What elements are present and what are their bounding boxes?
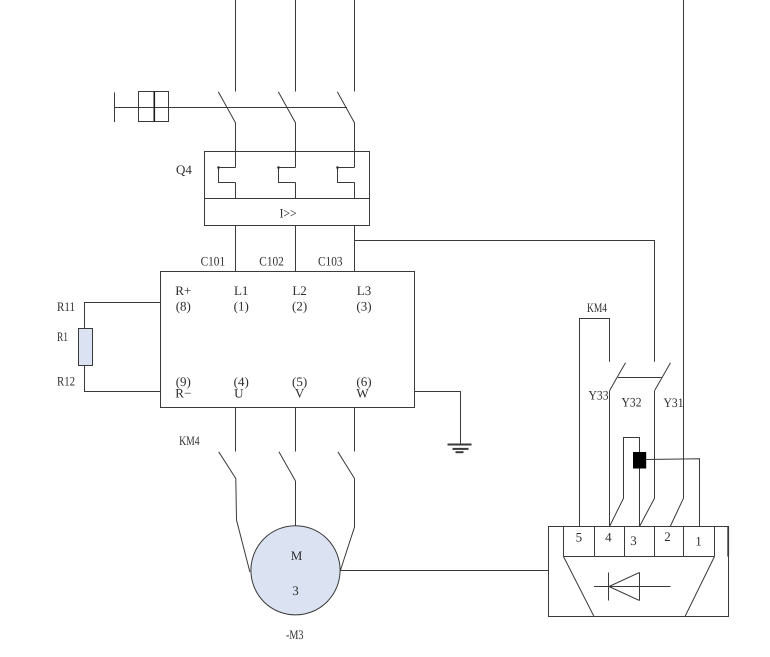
wire R+ to resistor top (85, 303, 161, 329)
svg-text:5: 5 (576, 530, 583, 545)
wire Y31 vertical (670, 0, 683, 527)
contactor KM4 pole 1 (219, 452, 236, 479)
svg-text:3: 3 (630, 533, 637, 548)
svg-text:L2: L2 (292, 283, 306, 298)
wire pole1 to Q4 (235, 123, 237, 168)
wire C103 (354, 183, 356, 199)
svg-text:(2): (2) (292, 299, 307, 314)
contactor KM4 pole 3 (338, 452, 355, 479)
breaker Q4 thermal box (205, 152, 370, 199)
svg-text:V: V (295, 386, 305, 401)
drive unit box (161, 272, 415, 408)
terminal row (564, 527, 729, 557)
svg-text:Y31: Y31 (664, 395, 684, 410)
wire connector feed loop (610, 438, 640, 527)
wire branch C103 to KM4 right contact (355, 241, 655, 362)
thermal element 2 (277, 166, 295, 182)
svg-text:Y32: Y32 (622, 395, 642, 410)
svg-text:4: 4 (605, 530, 612, 545)
svg-text:L3: L3 (357, 283, 371, 298)
svg-text:3: 3 (292, 583, 299, 598)
wire KM4 brake feed (580, 319, 610, 527)
svg-text:(1): (1) (234, 299, 249, 314)
wire Y32 to terminal 3 (640, 391, 655, 527)
breaker Q4 magnetic box (205, 199, 370, 226)
wire C102 (295, 183, 297, 199)
svg-text:C103: C103 (318, 254, 343, 269)
svg-text:C101: C101 (201, 254, 226, 269)
breaker handle box (139, 92, 169, 122)
brake trapezoid left (564, 557, 595, 617)
wire pole2 to Q4 (295, 123, 297, 168)
svg-text:M: M (291, 548, 303, 563)
wire phase 3 top (354, 0, 356, 92)
svg-text:R+: R+ (175, 283, 191, 298)
wire contact1 to motor (236, 479, 250, 573)
svg-text:2: 2 (664, 529, 671, 544)
svg-text:L1: L1 (234, 283, 248, 298)
ground (448, 445, 472, 453)
svg-text:R12: R12 (57, 374, 75, 389)
wire drive to ground (415, 392, 461, 445)
wire V to KM4 contact 2 (295, 408, 297, 452)
resistor R1 (79, 329, 93, 366)
brake unit box (549, 527, 729, 617)
wire W to KM4 contact 3 (354, 408, 356, 452)
diode (594, 573, 671, 601)
svg-text:KM4: KM4 (179, 433, 200, 448)
svg-text:KM4: KM4 (587, 300, 607, 315)
svg-text:W: W (356, 386, 369, 401)
wire connector to terminal 3 (639, 469, 641, 527)
svg-text:Q4: Q4 (176, 162, 192, 177)
svg-text:(8): (8) (176, 299, 191, 314)
wire U to KM4 contact 1 (235, 408, 237, 452)
wire resistor bottom to R- (85, 366, 161, 392)
brake trapezoid right (685, 557, 715, 617)
breaker handle terminal bar (114, 92, 116, 122)
connector block (633, 452, 646, 469)
wire phase 2 top (295, 0, 297, 92)
svg-text:-M3: -M3 (286, 627, 304, 642)
breaker pole 2 (278, 92, 295, 123)
svg-text:I>>: I>> (280, 206, 297, 221)
thermal element 3 (336, 166, 354, 182)
wire motor to brake unit (340, 570, 549, 572)
thermal element 1 (217, 166, 235, 182)
wire contact2 to motor (295, 481, 297, 526)
svg-text:U: U (234, 386, 244, 401)
svg-text:R1: R1 (57, 329, 68, 344)
wire Y33 to terminal 4 (609, 391, 611, 527)
contactor KM4 brake pole Y32 (655, 363, 671, 391)
svg-text:R11: R11 (57, 299, 75, 314)
wire contact3 to motor (340, 479, 354, 571)
svg-text:R−: R− (175, 386, 191, 401)
breaker linkage horizontal (115, 107, 348, 109)
svg-text:Y33: Y33 (589, 388, 609, 403)
svg-text:C102: C102 (259, 254, 284, 269)
wire phase 1 top (235, 0, 237, 92)
motor M3 (251, 526, 340, 615)
svg-text:1: 1 (695, 534, 702, 549)
svg-text:(3): (3) (356, 299, 371, 314)
contactor KM4 pole 2 (279, 452, 296, 481)
breaker pole 3 (337, 92, 354, 123)
wire C101 (235, 183, 237, 199)
wire pole3 to Q4 (354, 123, 356, 168)
wire connector to terminal 1 (646, 459, 699, 527)
linkage KM4 brake (618, 377, 662, 379)
breaker pole 1 (218, 92, 235, 123)
contactor KM4 brake pole Y33 (610, 363, 626, 391)
